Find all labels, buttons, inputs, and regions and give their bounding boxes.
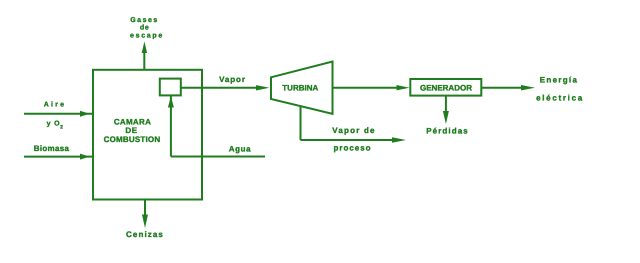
svg-text:eléctrica: eléctrica: [536, 94, 584, 103]
label Energia electrica: [536, 76, 584, 103]
vapor line to turbine: [181, 85, 270, 90]
svg-text:GENERADOR: GENERADOR: [420, 84, 472, 93]
perdidas arrow: [443, 96, 449, 124]
cenizas arrow: [142, 200, 148, 229]
svg-text:de: de: [140, 24, 150, 32]
svg-text:Energía: Energía: [540, 76, 578, 85]
svg-text:2: 2: [60, 125, 63, 131]
svg-text:y O: y O: [47, 120, 61, 127]
label Gases de escape: [130, 17, 164, 40]
svg-text:Gases: Gases: [130, 17, 159, 24]
vapor de proceso line: [301, 106, 407, 143]
svg-text:Aire: Aire: [44, 101, 66, 109]
water line down from valve: [168, 95, 174, 156]
combustion chamber box: [93, 70, 202, 200]
exhaust gases arrow: [142, 42, 147, 70]
agua line: [171, 156, 265, 158]
generator box: [410, 79, 481, 96]
valve small box: [160, 79, 181, 96]
turbine to generator line: [333, 85, 410, 90]
svg-text:Biomasa: Biomasa: [34, 144, 70, 153]
svg-text:COMBUSTION: COMBUSTION: [104, 135, 161, 144]
svg-text:Cenizas: Cenizas: [126, 230, 164, 239]
biomasa input arrow: [24, 154, 92, 160]
svg-text:TURBINA: TURBINA: [282, 83, 318, 92]
svg-text:Pérdidas: Pérdidas: [426, 127, 469, 136]
svg-text:proceso: proceso: [333, 144, 371, 153]
svg-text:Vapor: Vapor: [219, 75, 246, 84]
svg-text:escape: escape: [130, 33, 164, 40]
label Aire y O2: [44, 101, 66, 131]
aire input arrow: [24, 111, 92, 117]
turbine: [271, 62, 333, 114]
svg-text:Agua: Agua: [229, 145, 251, 154]
svg-text:DE: DE: [125, 126, 137, 135]
label Vapor de proceso: [332, 126, 375, 153]
label CAMARA DE COMBUSTION: [104, 118, 161, 145]
energia output arrow: [481, 85, 535, 90]
svg-text:Vapor de: Vapor de: [332, 126, 375, 135]
